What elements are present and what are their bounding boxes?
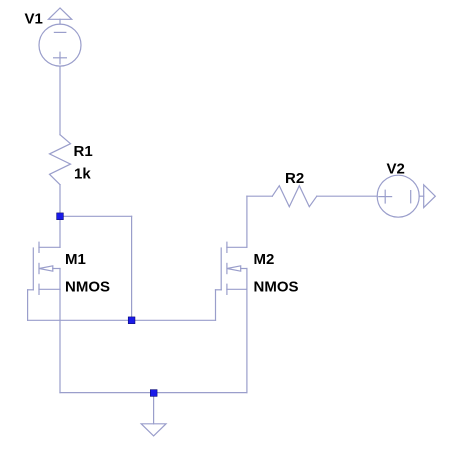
transistor M2 (NMOS) xyxy=(216,242,247,294)
V2 minus mark xyxy=(410,191,412,203)
value label 1k xyxy=(74,166,91,183)
V1 minus mark xyxy=(54,31,65,33)
wire M2 drain up to R2 xyxy=(247,196,272,247)
label R1 xyxy=(74,143,93,160)
wire M1 source down xyxy=(59,289,61,392)
label V1 xyxy=(25,11,43,28)
svg-text:R1: R1 xyxy=(74,143,93,160)
svg-text:NMOS: NMOS xyxy=(65,278,110,295)
transistor M1 (NMOS) xyxy=(28,242,60,294)
label R2 xyxy=(285,170,304,187)
svg-text:1k: 1k xyxy=(74,166,91,183)
wire node A to right xyxy=(60,215,132,217)
V1 plus mark xyxy=(54,52,67,64)
svg-text:NMOS: NMOS xyxy=(254,278,299,295)
wire M2 gate to bus xyxy=(215,290,217,321)
svg-text:M1: M1 xyxy=(65,251,86,268)
ground symbol xyxy=(141,393,166,436)
port flag (output arrow) on V2 xyxy=(419,185,435,208)
wire M1 gate to bus xyxy=(27,290,29,321)
label V2 xyxy=(387,160,405,177)
resistor R1 xyxy=(50,135,71,185)
svg-text:V1: V1 xyxy=(25,11,43,28)
wire R1 to M1 drain xyxy=(59,185,61,248)
wire down to gate bus xyxy=(131,216,133,320)
junction node B (gate bus) xyxy=(128,317,135,324)
svg-text:V2: V2 xyxy=(387,160,405,177)
label M1 xyxy=(65,251,86,268)
voltage source V1 (circle) xyxy=(39,24,81,66)
value label NMOS (M2) xyxy=(254,278,299,295)
wire M2 source down xyxy=(246,289,248,392)
wire R2 to V2 xyxy=(317,195,377,197)
wire V1 to R1 xyxy=(59,66,61,135)
label M2 xyxy=(254,251,275,268)
V2 plus mark xyxy=(379,190,392,203)
ground bus wire xyxy=(60,392,247,394)
port flag (output arrow) on V1 xyxy=(48,8,71,24)
resistor R2 xyxy=(272,186,317,207)
gate bus wire xyxy=(28,319,216,321)
svg-text:R2: R2 xyxy=(285,170,304,187)
junction node C (ground bus) xyxy=(150,390,157,397)
svg-text:M2: M2 xyxy=(254,251,275,268)
junction node A xyxy=(57,213,64,220)
voltage source V2 (circle) xyxy=(377,175,419,217)
value label NMOS (M1) xyxy=(65,278,110,295)
